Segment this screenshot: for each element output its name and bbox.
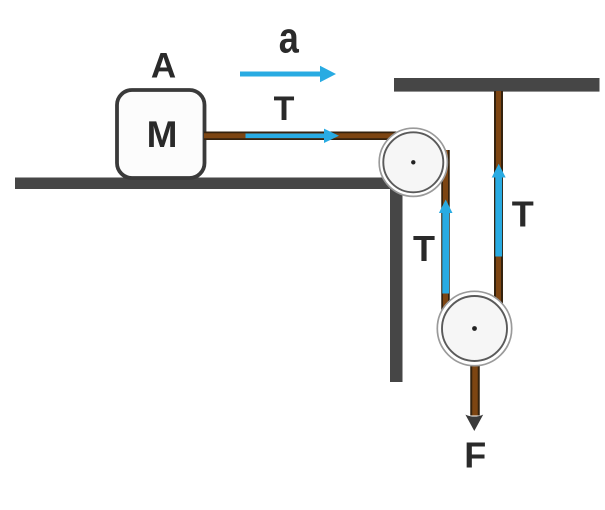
arrow T on rope C xyxy=(492,164,506,257)
table top xyxy=(15,178,403,190)
wire rope C ceiling to pulley2 xyxy=(494,91,503,330)
ceiling bar xyxy=(394,78,600,92)
wire rope A horizontal xyxy=(204,132,428,141)
pulley P1 xyxy=(379,128,447,196)
wire rope B vertical pulley1 to pulley2 xyxy=(441,150,450,330)
arrow T on rope B xyxy=(439,200,453,294)
svg-text:M: M xyxy=(147,114,178,155)
arrow a (acceleration) xyxy=(240,66,336,82)
svg-text:T: T xyxy=(512,194,534,235)
svg-text:A: A xyxy=(151,47,176,86)
table leg xyxy=(390,185,403,382)
wire rope D pulley2 down to F xyxy=(470,328,480,416)
svg-text:a: a xyxy=(279,13,300,62)
arrowhead F xyxy=(465,415,483,431)
arrow T on rope A xyxy=(246,129,340,143)
svg-text:T: T xyxy=(274,90,295,128)
svg-text:T: T xyxy=(413,228,435,269)
pulley P2 xyxy=(437,291,511,365)
block M xyxy=(117,90,205,178)
svg-text:F: F xyxy=(464,435,486,476)
